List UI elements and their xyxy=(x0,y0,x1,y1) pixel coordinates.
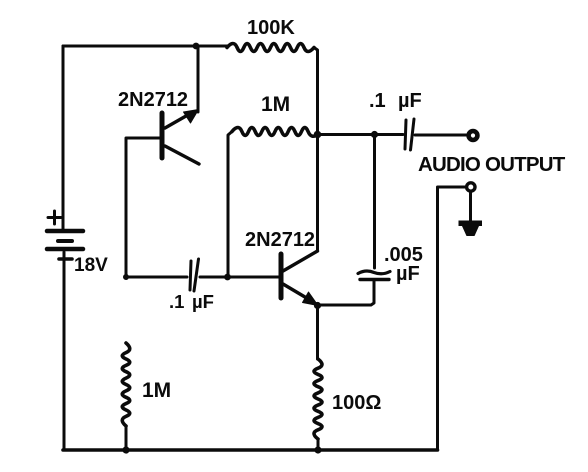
battery plate long top xyxy=(47,229,83,234)
wire left rail (battery to bottom) xyxy=(63,252,66,450)
wire terminal return to right rail xyxy=(438,187,466,450)
resistor 100 ohm xyxy=(314,359,322,439)
transistor Q2 2N2712 xyxy=(281,251,318,306)
node junction 100 ohm / bottom rail xyxy=(314,446,321,453)
battery B1 xyxy=(47,211,83,259)
svg-text:100K: 100K xyxy=(247,17,295,39)
wire terminal to ground xyxy=(469,192,472,221)
label + xyxy=(48,211,61,224)
capacitor C3 .005uF xyxy=(358,271,390,280)
svg-text:.1: .1 xyxy=(369,90,386,112)
wire output line xyxy=(318,133,404,136)
svg-text:100Ω: 100Ω xyxy=(332,392,381,414)
wire Q1 collector vertical xyxy=(197,46,200,112)
resistor 1M (vertical) xyxy=(122,343,130,426)
node Q2 emitter junction xyxy=(314,302,321,309)
node junction .005 branch xyxy=(371,131,378,138)
wire 1M bottom lead xyxy=(125,426,128,450)
svg-text:.1: .1 xyxy=(169,291,184,312)
wire .005 branch vertical xyxy=(373,135,376,269)
node junction base/1M xyxy=(224,274,231,281)
capacitor C1 .1uF xyxy=(190,259,199,291)
transistor Q1 2N2712 xyxy=(162,110,199,165)
svg-text:µF: µF xyxy=(192,291,214,312)
battery plate short bottom xyxy=(59,257,72,261)
node junction top (collector branch) xyxy=(193,43,200,50)
svg-text:AUDIO OUTPUT: AUDIO OUTPUT xyxy=(418,153,566,176)
svg-text:1M: 1M xyxy=(142,379,171,402)
capacitor C2 .1uF xyxy=(405,119,414,150)
svg-text:µF: µF xyxy=(398,90,422,112)
svg-text:18V: 18V xyxy=(74,255,108,276)
wire .005 bottom to emitter xyxy=(318,281,375,305)
wire right vertical (100K to Q2 collector) xyxy=(314,48,318,252)
wire left rail (top to battery) xyxy=(62,46,65,229)
wire Q2 base line xyxy=(126,276,279,279)
node terminal AUDIO OUTPUT return xyxy=(467,183,475,191)
node junction base left xyxy=(123,274,129,280)
wire bottom rail xyxy=(63,448,438,452)
wire 1M left lead down to Q2 base xyxy=(228,132,232,278)
svg-text:2N2712: 2N2712 xyxy=(118,89,188,111)
wire top rail xyxy=(63,45,227,48)
battery plate short xyxy=(58,239,72,243)
svg-text:1M: 1M xyxy=(261,93,290,116)
svg-text:µF: µF xyxy=(396,263,420,285)
wire cap to terminal xyxy=(415,134,466,137)
svg-text:2N2712: 2N2712 xyxy=(245,229,315,251)
wire 100 ohm bottom lead xyxy=(317,439,320,450)
wire Q1 base lead xyxy=(126,138,160,277)
wire emitter to 100 ohm xyxy=(316,306,319,360)
resistor 1M (horizontal) xyxy=(232,128,318,137)
node junction 1M/output xyxy=(314,131,322,139)
battery plate long bottom xyxy=(47,247,83,252)
node terminal AUDIO OUTPUT hot xyxy=(469,131,478,140)
resistor 100K xyxy=(227,44,314,52)
node junction 1M / bottom rail xyxy=(122,446,129,453)
ground xyxy=(459,221,483,237)
